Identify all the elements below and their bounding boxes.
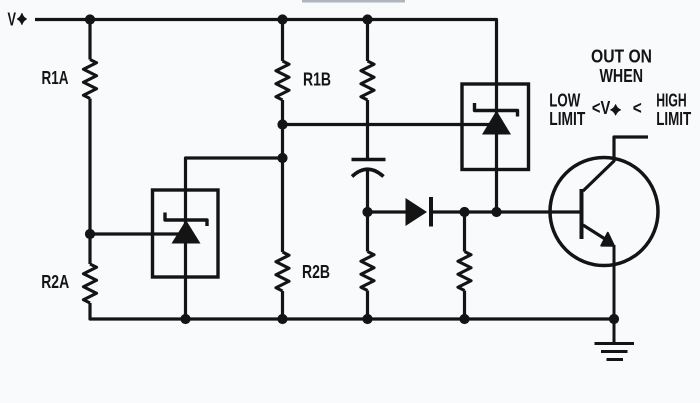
resistor R1B (276, 61, 289, 100)
junction R1B/U1 cathode wire (277, 153, 287, 163)
wire diode node down to lower resistor (366, 212, 369, 252)
capacitor C1 top plate (352, 158, 386, 162)
svg-text:<: < (633, 98, 642, 118)
wire node to lower right resistor (463, 212, 466, 252)
wire reference node to U2 (283, 123, 493, 126)
transistor Q1 emitter arrowhead (601, 233, 614, 246)
shunt regulator U1 box (153, 190, 219, 277)
junction R2B/ground rail (277, 314, 287, 324)
wire node y158 to U1 cathode (186, 158, 283, 190)
transistor Q1 base bar (580, 189, 584, 239)
svg-text:HIGH: HIGH (656, 90, 687, 110)
wire U1 vertical through box to rail (184, 190, 187, 319)
diode D1 cathode bar (429, 197, 433, 227)
wire resistor to capacitor top (366, 100, 369, 158)
svg-text:R1A: R1A (42, 68, 69, 88)
junction diode line/U2 (491, 207, 501, 217)
junction R1B/reference wire (277, 119, 287, 129)
wire capacitor bottom to diode node (366, 171, 369, 212)
svg-text:LIMIT: LIMIT (549, 109, 585, 129)
zener triangle U1 (172, 220, 201, 244)
junction mid resistor/ground rail (362, 314, 372, 324)
wire U2 vertical through box to diode line (495, 84, 498, 212)
svg-text:LIMIT: LIMIT (656, 109, 691, 129)
junction V+/mid column (362, 14, 372, 24)
wire lower mid resistor bottom lead (366, 291, 369, 320)
junction diode/lower right resistor (459, 207, 469, 217)
resistor R1A (84, 60, 97, 99)
svg-text:R2B: R2B (302, 262, 330, 282)
resistor R2A (84, 264, 97, 303)
wire top V+ rail (35, 20, 497, 85)
zener bar U2 (475, 103, 518, 117)
svg-text:V: V (8, 10, 17, 30)
junction U1/ground rail (180, 314, 190, 324)
wire R1A bottom to node at y234 (88, 99, 91, 235)
transistor Q1 circle (550, 158, 658, 266)
svg-text:<V: <V (592, 98, 610, 118)
wire diode anode lead (368, 210, 407, 213)
wire R2A bottom + bottom ground rail (90, 303, 614, 319)
shunt regulator U2 box (462, 84, 529, 170)
resistor lower right (unlabeled) (458, 252, 471, 291)
zener bar U1 (165, 213, 207, 227)
cropped artifact at top edge (302, 0, 405, 3)
resistor R2B (276, 252, 289, 291)
wire node y234 to R2A top (88, 234, 91, 264)
svg-text:R1B: R1B (303, 70, 331, 90)
wire mid column upper lead (366, 20, 369, 62)
plus star of V+ annotation (611, 105, 621, 115)
resistor upper mid (unlabeled) (361, 61, 374, 100)
transistor Q1 emitter lead (583, 225, 609, 242)
plus star of V+ label (17, 13, 26, 24)
junction V+/R1A (85, 14, 95, 24)
junction right resistor/ground rail (459, 314, 469, 324)
ground symbol (595, 319, 635, 360)
capacitor C1 curved plate (352, 169, 384, 176)
junction capacitor/diode (362, 207, 372, 217)
junction emitter/ground (609, 314, 619, 324)
svg-text:OUT ON: OUT ON (591, 46, 652, 66)
diode D1 triangle (406, 198, 428, 226)
wire R1B bottom down to R2B top (281, 100, 284, 252)
wire R1B column upper lead (281, 20, 284, 62)
wire reference node to U1 (90, 232, 182, 235)
wire lower right resistor bottom lead (463, 291, 466, 320)
junction R1A-R2A/U1 reference (85, 229, 95, 239)
resistor lower mid (unlabeled) (361, 252, 374, 291)
svg-text:LOW: LOW (549, 90, 580, 110)
zener triangle U2 (482, 111, 511, 135)
wire emitter to ground rail (613, 245, 616, 319)
wire R1A column upper lead (88, 20, 91, 60)
svg-text:WHEN: WHEN (600, 66, 644, 86)
wire R2B bottom lead (281, 291, 284, 319)
junction V+/R1B (277, 14, 287, 24)
transistor Q1 collector lead (583, 137, 648, 191)
wire diode cathode to transistor base (433, 210, 582, 213)
svg-text:R2A: R2A (41, 272, 69, 292)
